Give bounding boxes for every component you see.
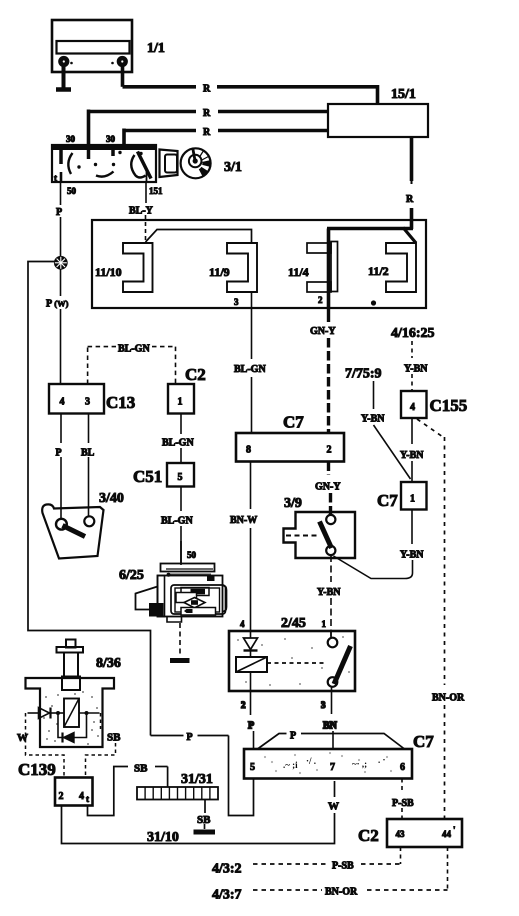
svg-text:P (W): P (W) [46,299,69,310]
wire BN-OR C2 pin44 to 4/3:7 [447,847,449,890]
svg-text:SB: SB [134,763,148,775]
svg-text:. ·: . · [378,755,386,765]
svg-text:R: R [203,108,211,119]
wire Y-BN C155 to C7 pin1 [411,418,413,482]
wire P relay pin2 to C7 pin5 [241,691,254,749]
svg-text:P: P [56,207,62,218]
wire P-SB C2 pin43 to 4/3:2 [400,847,402,864]
wire R 15/1 down to fuse box [410,137,414,229]
svg-text:3: 3 [234,297,239,307]
svg-text:3/1: 3/1 [224,160,242,175]
svg-text:C139: C139 [18,760,56,779]
svg-text:·/ .: ·/ . [306,756,316,766]
wire P from terminal 50 [60,217,62,384]
battery 1/1 [52,20,165,72]
svg-text:R: R [406,194,414,205]
wire P C13 pin4 to 3/40 [60,414,62,521]
svg-text:50: 50 [67,186,77,196]
svg-text:11/2: 11/2 [368,264,389,278]
terminal 50 pin [61,182,77,205]
wire R battery to 15/1 [123,64,380,104]
fuse 11/2 [368,243,416,292]
wire R 15/1 to ignition switch 30 (lower) [123,129,329,147]
wire BL-GN C51 to starter [180,487,182,566]
wire GN-Y C7 pin2 to 3/9 [329,462,331,517]
svg-text:4: 4 [79,791,84,802]
svg-text:Y-BN: Y-BN [317,587,341,598]
svg-text:3/9: 3/9 [284,496,302,511]
svg-text:P: P [187,732,193,743]
svg-text:4/3:2: 4/3:2 [212,862,242,877]
connector C13 [49,384,135,414]
svg-text:7: 7 [330,762,335,773]
connector C7 (pins 8,2) [236,413,344,462]
svg-text:BL-GN: BL-GN [162,438,194,449]
diode (in relay 2/45) [244,631,258,657]
svg-text:4/3:7: 4/3:7 [212,888,242,903]
svg-text:5: 5 [250,762,255,773]
junction dot under fuse 11/2 [371,300,376,305]
svg-text:1: 1 [322,619,327,629]
ground 31/10 [147,830,215,845]
svg-text:2: 2 [241,700,246,710]
svg-text:W: W [328,801,339,813]
svg-text:31/31: 31/31 [181,772,213,787]
connector C139 [18,760,93,806]
svg-text:6: 6 [400,762,405,773]
svg-text:BL-GN: BL-GN [118,344,150,355]
svg-text:C7: C7 [283,413,304,432]
svg-text:4: 4 [240,619,245,629]
switch 3/9 [284,496,356,558]
svg-text:2: 2 [327,445,332,456]
svg-text:R: R [203,127,211,138]
relay coil (2/45) [236,657,325,691]
svg-text:11/9: 11/9 [209,265,230,279]
svg-text:P: P [290,731,296,742]
svg-text:W: W [17,732,28,744]
wire Y-BN 3/9 to relay 2/45 pin1 [330,555,332,637]
relay 2/45 [229,616,355,691]
wire BL-GN fuse 11/9 to C7 [251,308,253,433]
starter motor 6/25 [119,541,227,622]
svg-text:C155: C155 [430,396,468,415]
svg-text:C13: C13 [106,393,135,412]
svg-text:C51: C51 [133,467,162,486]
svg-text:43: 43 [396,829,406,839]
svg-text:44: 44 [442,829,452,839]
svg-text:Y-BN: Y-BN [404,364,428,375]
wire R inside fuse box to 11/4 and 11/2 [327,228,416,309]
svg-text:GN-Y: GN-Y [310,326,336,337]
clock unit 8/36 housing [26,678,115,747]
connector C2 (pin 1) [168,365,206,414]
svg-text:t: t [86,794,89,804]
wire jumper 11/10 to 11/9 [146,230,252,244]
svg-text:BN-W: BN-W [230,515,257,526]
svg-text:BN-OR: BN-OR [325,887,358,898]
clock unit 8/36 key symbol [57,640,121,691]
fuse unit 15/1 [328,87,428,137]
svg-text:1: 1 [410,494,415,505]
diode 1 (in 8/36) [28,708,64,719]
fuse box [92,220,426,308]
wire SB comb to ground 31/10 [204,800,207,830]
svg-text:50: 50 [187,550,197,560]
svg-text:5: 5 [178,472,183,483]
relay coil (in 8/36) [64,699,100,728]
svg-text:30: 30 [106,134,116,144]
ignition switch 3/1 [52,134,156,183]
svg-text:11/4: 11/4 [288,265,309,279]
wire BN-OR dashed from C155 down right side [417,419,445,819]
connector C7 (pin 1) [377,482,427,510]
svg-text:BN: BN [323,721,338,732]
svg-text:Y-BN: Y-BN [400,450,424,461]
svg-text:P-SB: P-SB [392,798,414,809]
node 4/3:7 dashed wire BN-OR [212,887,448,903]
svg-text:2: 2 [318,295,323,305]
connector C155 [401,391,467,418]
ground (starter 6/25) [170,623,190,661]
wire Y-BN loop C7 pin1 to 3/9 output [334,510,413,579]
svg-text:4: 4 [60,397,65,408]
wire BN-W C7 pin8 to relay 2/45 pin4 [250,462,252,632]
wire SB C139 pin4 to ground comb [88,767,168,816]
gear selector switch 3/40 [42,491,124,559]
svg-text:1: 1 [178,397,183,408]
wire BL-GN C2 to C51 [180,414,182,464]
wire R 15/1 to ignition switch 30 (upper) [89,110,329,147]
fuse 11/9 [209,243,257,292]
wire P-SB C7 pin6 to C2 pin43 [401,779,403,820]
svg-text:t: t [54,173,57,183]
wire GN-Y from fuse 11/4 down [327,308,330,433]
svg-text:SB: SB [197,814,211,826]
diode 2 (in 8/36) [58,713,87,743]
ground comb 31/31 [137,772,218,800]
splice node [55,257,67,269]
wire BL-GN dashed C13 to C2 [88,347,176,384]
connector C2 (pins 43,44) [358,819,462,847]
wire W C139 pin2 to C7 pin7 [62,781,335,844]
svg-text:151: 151 [149,186,163,196]
svg-text:BL: BL [81,448,95,459]
svg-text:Y-BN: Y-BN [361,414,385,425]
svg-text:P-SB: P-SB [332,861,354,872]
node 4/3:2 dashed wire P-SB [212,861,401,877]
fuse 11/4 [288,242,338,293]
svg-text:P: P [56,448,62,459]
svg-text:2/45: 2/45 [281,616,306,631]
svg-text:8: 8 [246,445,251,456]
svg-text:3: 3 [85,397,90,408]
wire P jumper over C7 (pin5 to pin6) [258,734,405,750]
connector C7 (pins 5,7,6) [244,732,434,779]
svg-text:3: 3 [321,700,326,710]
ignition key cylinder [160,148,211,178]
svg-text:C2: C2 [358,826,379,845]
label 4/16:25 wire Y-BN dashed [411,341,413,391]
wire BN relay pin3 to C7 pin7 [321,687,338,749]
svg-text:.~ ;i: .~ ;i [283,760,298,770]
svg-text:8/36: 8/36 [96,656,121,671]
svg-text:BL-Y: BL-Y [129,206,154,217]
svg-text:30: 30 [66,134,76,144]
wire P branch to lower left [28,262,254,816]
svg-text:C7: C7 [377,491,398,510]
svg-text:1/1: 1/1 [147,41,165,56]
wire Y-BN from 7/75:9 [374,381,411,479]
pin 3 of fuse 11/9 [234,292,252,308]
svg-text:4/16:25: 4/16:25 [391,326,435,341]
wire SB 8/36 to C139 pin4 [86,713,116,778]
svg-text:4: 4 [410,402,415,413]
svg-text:P: P [248,721,254,732]
svg-text:Y-BN: Y-BN [400,550,424,561]
ground (battery negative post) [56,65,71,90]
svg-text:3/40: 3/40 [99,491,124,506]
fuse 11/10 [95,243,153,292]
connector C51 [133,463,194,487]
svg-text:C2: C2 [185,365,206,384]
svg-text:C7: C7 [413,732,434,751]
svg-text:6/25: 6/25 [119,568,144,583]
terminal 15I pin, wire BL-Y [129,182,163,242]
relay contacts (2/45) [328,631,351,687]
svg-text:': ' [453,825,456,835]
svg-text:BL-GN: BL-GN [234,364,266,375]
wire BL C13 pin3 to 3/40 [88,414,90,518]
svg-text:GN-Y: GN-Y [315,482,341,493]
svg-text:11/10: 11/10 [95,265,122,279]
svg-text:SB: SB [107,732,121,744]
svg-text:2: 2 [59,791,64,802]
svg-text:7/75:9: 7/75:9 [345,367,382,382]
svg-text:R: R [203,84,211,95]
svg-text:15/1: 15/1 [391,87,416,102]
svg-text:BL-GN: BL-GN [161,516,193,527]
svg-text:BN-OR: BN-OR [432,693,465,704]
wire W 8/36 to C139 pin2 [26,713,65,778]
